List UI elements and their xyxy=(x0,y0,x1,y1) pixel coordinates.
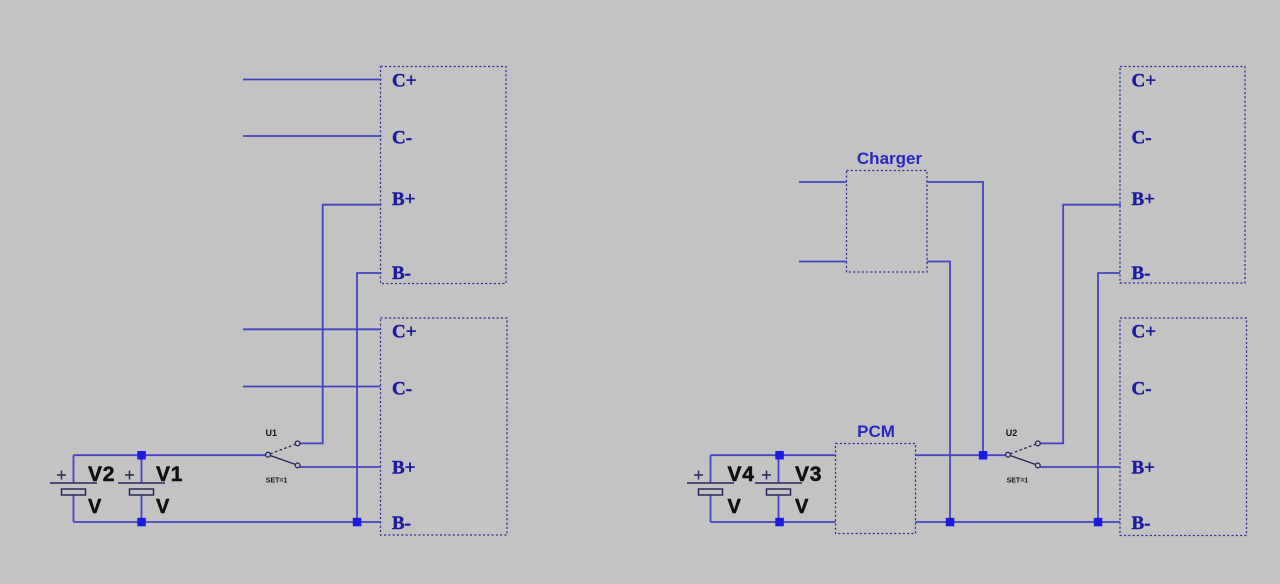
U1 pivot contact circle xyxy=(266,452,271,457)
wire switch U2 lower throw to B+ of bottom-right box xyxy=(1040,466,1120,468)
wire V1 positive lead xyxy=(141,455,143,483)
U2 pivot contact circle xyxy=(1006,452,1011,457)
wire V2 negative lead xyxy=(73,495,75,522)
junction node charger return bottom bus xyxy=(946,518,955,527)
wire switch U1 lower throw to B+ of bottom-left box xyxy=(300,466,381,468)
svg-text:C-: C- xyxy=(1132,378,1152,399)
svg-text:V3: V3 xyxy=(795,463,822,486)
svg-text:V: V xyxy=(88,496,102,518)
svg-text:B-: B- xyxy=(1132,263,1151,284)
U2 lower throw contact circle xyxy=(1035,463,1040,468)
U2 solid throw arm to lower contact xyxy=(1010,456,1035,465)
junction node B- net bottom bus right xyxy=(1094,518,1103,527)
svg-text:SET=1: SET=1 xyxy=(1007,478,1029,485)
wire V1 negative lead xyxy=(141,495,143,522)
wire B+ net of top-right box to switch U2 upper throw xyxy=(1040,205,1121,444)
pack connector box J1 (top-left dashed box) xyxy=(381,67,507,284)
wire charger output top to top bus junction xyxy=(927,182,983,455)
PCM block X2 (dashed box) xyxy=(836,444,916,534)
svg-text:C+: C+ xyxy=(1132,71,1157,92)
V4 plus sign xyxy=(694,471,703,480)
battery V4 xyxy=(687,455,755,522)
U1 lower throw contact circle xyxy=(295,463,300,468)
wire B- net of top-left box down to bottom bus xyxy=(357,273,382,522)
svg-text:C-: C- xyxy=(1132,127,1152,148)
wire PCM output to switch U2 common xyxy=(916,454,1006,456)
svg-text:V: V xyxy=(156,496,170,518)
svg-text:PCM: PCM xyxy=(857,422,895,441)
V1 plus sign xyxy=(125,471,134,480)
wire charger input stub top xyxy=(799,181,847,183)
wire bottom bus left (battery negative to B- pin) xyxy=(74,521,381,523)
svg-text:V4: V4 xyxy=(728,463,755,486)
svg-text:B+: B+ xyxy=(392,458,416,479)
V2 positive plate xyxy=(50,482,97,484)
V1 negative plate rectangle xyxy=(130,489,154,495)
wire V2 positive lead xyxy=(73,455,75,483)
wire C+ stub of bottom-left box xyxy=(243,328,381,330)
wire V4 negative lead xyxy=(710,495,712,522)
V1 positive plate xyxy=(118,482,165,484)
U1 upper throw contact circle xyxy=(295,441,300,446)
svg-text:SET=1: SET=1 xyxy=(266,478,288,485)
svg-text:Charger: Charger xyxy=(857,149,923,168)
wire V3 positive lead xyxy=(778,455,780,483)
junction node V1- bottom bus xyxy=(137,518,146,527)
switch U1 xyxy=(266,428,301,485)
wire C+ stub of top-left box xyxy=(243,79,382,81)
pack connector box J2 (bottom-left dashed box) xyxy=(381,318,508,535)
V3 positive plate xyxy=(755,482,802,484)
switch U2 xyxy=(1006,428,1041,485)
wire C- stub of bottom-left box xyxy=(243,386,381,388)
svg-text:B+: B+ xyxy=(1132,189,1156,210)
svg-text:C-: C- xyxy=(392,127,412,148)
svg-text:U1: U1 xyxy=(266,428,278,438)
junction node charger output top bus xyxy=(979,451,988,460)
wire charger output bottom to bottom bus junction xyxy=(927,262,950,523)
U2 dashed throw arm to upper contact xyxy=(1010,444,1035,454)
pack connector box J3 (top-right dashed box) xyxy=(1120,67,1245,284)
V4 negative plate rectangle xyxy=(699,489,723,495)
U1 dashed throw arm to upper contact xyxy=(270,444,295,454)
wire top bus right (batteries to PCM) xyxy=(711,454,836,456)
svg-text:C+: C+ xyxy=(392,321,417,342)
V2 negative plate rectangle xyxy=(62,489,86,495)
svg-text:B+: B+ xyxy=(1132,458,1156,479)
svg-text:U2: U2 xyxy=(1006,428,1018,438)
svg-text:V: V xyxy=(795,496,809,518)
wire V3 negative lead xyxy=(778,495,780,522)
battery V1 xyxy=(118,455,183,522)
battery V3 xyxy=(755,455,822,522)
junction node B- net bottom bus left xyxy=(353,518,362,527)
wire charger input stub bottom xyxy=(799,261,847,263)
wire top bus left (battery positive to switch common) xyxy=(74,454,266,456)
V3 plus sign xyxy=(762,471,771,480)
U2 upper throw contact circle xyxy=(1035,441,1040,446)
svg-text:B-: B- xyxy=(1132,513,1151,534)
junction node V3- bottom bus xyxy=(775,518,784,527)
svg-text:B-: B- xyxy=(392,263,411,284)
V2 plus sign xyxy=(57,471,66,480)
wire bottom bus right (PCM to B- pin) xyxy=(916,521,1121,523)
V4 positive plate xyxy=(687,482,734,484)
pack connector box J4 (bottom-right dashed box) xyxy=(1120,318,1247,536)
junction node V1+ top bus xyxy=(137,451,146,460)
svg-text:V: V xyxy=(728,496,742,518)
svg-text:B+: B+ xyxy=(392,189,416,210)
wire bottom bus right (batteries to PCM) xyxy=(711,521,836,523)
svg-text:B-: B- xyxy=(392,513,411,534)
Charger block X1 (dashed box) xyxy=(847,171,928,273)
svg-text:C+: C+ xyxy=(1132,321,1157,342)
U1 solid throw arm to lower contact xyxy=(270,456,295,465)
svg-text:C+: C+ xyxy=(392,71,417,92)
junction node V3+ top bus xyxy=(775,451,784,460)
V3 negative plate rectangle xyxy=(767,489,791,495)
wire V4 positive lead xyxy=(710,455,712,483)
svg-text:C-: C- xyxy=(392,378,412,399)
wire B- net of top-right box down to bottom bus xyxy=(1098,273,1120,522)
wire C- stub of top-left box xyxy=(243,135,382,137)
battery V2 xyxy=(50,455,115,522)
svg-text:V1: V1 xyxy=(156,463,183,486)
svg-text:V2: V2 xyxy=(88,463,115,486)
wire B+ net of top-left box to switch U1 upper throw xyxy=(300,205,381,444)
